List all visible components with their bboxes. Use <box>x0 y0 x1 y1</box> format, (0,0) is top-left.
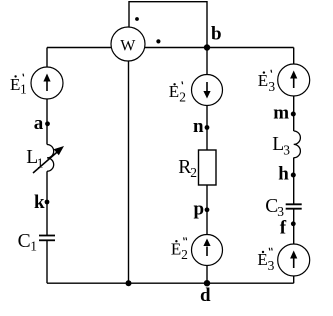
junction wattmeter branch / bottom bus <box>126 280 132 286</box>
svg-text:1: 1 <box>37 156 44 171</box>
label R2 <box>178 157 197 180</box>
node b <box>204 24 222 51</box>
node k <box>34 192 49 213</box>
wire bottom bus <box>47 282 294 284</box>
wattmeter polarity dot lower <box>156 39 160 43</box>
inductor L3 <box>294 131 301 158</box>
node d <box>200 280 211 306</box>
svg-text:E: E <box>258 71 268 90</box>
svg-text:3: 3 <box>268 258 275 273</box>
label E3ppp <box>257 248 274 273</box>
capacitor C3 <box>286 204 302 208</box>
node n <box>193 116 209 137</box>
label L3 <box>272 134 290 157</box>
wire top bus <box>47 47 294 49</box>
wire left branch top <box>46 48 48 68</box>
svg-text:d: d <box>200 285 211 306</box>
svg-text:W: W <box>120 38 136 55</box>
wattmeter polarity dot upper <box>135 17 139 21</box>
node a <box>34 113 50 134</box>
wire C1 to bottom bus <box>46 241 48 284</box>
node p <box>194 198 210 219</box>
wire L1 to C1 via node k <box>46 171 48 235</box>
node f <box>280 217 296 238</box>
wattmeter W <box>111 27 145 61</box>
wire wattmeter down to bottom bus <box>128 61 130 283</box>
svg-text:C: C <box>18 231 31 252</box>
label E3p <box>258 70 276 94</box>
capacitor C1 <box>39 236 55 241</box>
wire E2 to R2 via node n <box>206 106 208 151</box>
wire R2 to E2pp via node p <box>206 185 208 235</box>
label E2pp <box>171 237 188 261</box>
source E2 <box>192 75 223 106</box>
svg-text:2: 2 <box>181 247 188 262</box>
node m <box>273 103 296 124</box>
svg-text:3: 3 <box>268 79 275 94</box>
inductor L1 (variable, arrow) <box>33 145 64 174</box>
wire L3 to C3 via node h <box>293 158 295 205</box>
label E2 <box>169 81 186 104</box>
label E1 <box>10 74 27 97</box>
source E3p <box>278 64 310 96</box>
svg-text:k: k <box>34 192 45 213</box>
label C1 <box>18 231 37 254</box>
wire E3p to L3 via node m <box>293 96 295 131</box>
wire right branch top <box>293 48 295 65</box>
node h <box>278 164 296 185</box>
wire E3ppp to bottom bus <box>293 276 295 283</box>
source E1 <box>31 67 63 99</box>
svg-text:3: 3 <box>283 143 290 158</box>
svg-text:E: E <box>10 75 20 94</box>
svg-text:a: a <box>34 113 44 134</box>
wire b to E2 <box>206 48 208 76</box>
wire wattmeter voltage loop <box>129 2 207 48</box>
svg-text:1: 1 <box>30 239 37 254</box>
svg-text:m: m <box>273 103 289 124</box>
svg-text:2: 2 <box>190 165 197 180</box>
svg-text:h: h <box>278 164 289 185</box>
wire E1 to L1 via node a <box>46 99 48 145</box>
svg-text:f: f <box>280 217 287 238</box>
label C3 <box>265 196 284 219</box>
label L1 <box>26 147 43 171</box>
svg-text:1: 1 <box>20 82 27 97</box>
svg-text:b: b <box>211 24 222 45</box>
svg-text:2: 2 <box>179 90 186 105</box>
source E2pp <box>192 235 223 266</box>
wire E2pp to node d <box>206 266 208 284</box>
wire C3 to E3ppp via node f <box>293 209 295 244</box>
svg-text:p: p <box>194 198 205 219</box>
svg-text:n: n <box>193 116 204 137</box>
source E3ppp <box>278 244 310 276</box>
resistor R2 <box>199 150 217 185</box>
